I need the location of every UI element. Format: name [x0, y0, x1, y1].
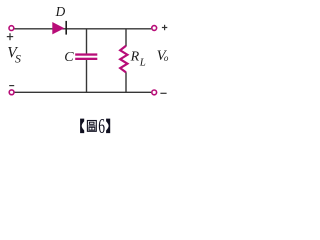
- svg-text:o: o: [164, 53, 169, 63]
- wire bottom horizontal: [14, 91, 151, 93]
- capacitor C (plates): [75, 53, 97, 55]
- wire capacitor branch upper: [86, 29, 88, 54]
- resistor R_L (zigzag): [120, 46, 127, 73]
- svg-text:S: S: [15, 52, 21, 66]
- wire capacitor branch lower: [86, 60, 88, 93]
- minus sign bottom-right: [160, 92, 166, 94]
- caption character tu (figure): [87, 121, 96, 132]
- wire resistor branch upper: [125, 29, 127, 46]
- terminal top-right: [152, 26, 157, 31]
- diode D: [52, 22, 64, 34]
- plus sign top-right: [162, 25, 167, 30]
- caption right bracket: [106, 119, 110, 134]
- caption left bracket: [80, 119, 84, 134]
- terminal bottom-left: [9, 90, 14, 95]
- svg-text:R: R: [130, 50, 140, 65]
- terminal top-left: [9, 26, 14, 31]
- svg-text:L: L: [139, 57, 146, 69]
- terminal bottom-right: [152, 90, 157, 95]
- wire resistor branch lower: [125, 72, 127, 92]
- plus sign top-left: [7, 33, 13, 40]
- wire top horizontal: [14, 28, 151, 30]
- svg-text:C: C: [64, 50, 74, 65]
- minus sign bottom-left: [9, 85, 14, 87]
- svg-text:6: 6: [98, 114, 105, 138]
- svg-text:D: D: [55, 4, 66, 19]
